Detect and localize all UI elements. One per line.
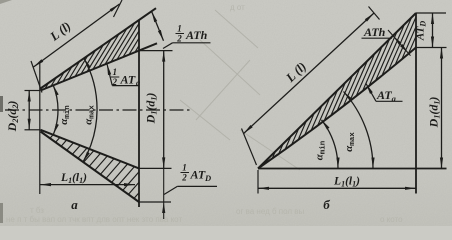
- extension tick right for L(l): [114, 0, 123, 17]
- svg-text:AT: AT: [190, 168, 206, 182]
- svg-text:D2(d2): D2(d2): [5, 101, 20, 133]
- svg-text:а: а: [71, 197, 78, 212]
- label D2(d2) rotated: [5, 101, 20, 133]
- centerline axis of left cone: [5, 109, 191, 111]
- leader arrow of half-ATa label: [107, 64, 112, 85]
- svg-text:о кото: о кото: [380, 215, 403, 224]
- label 1/2 ATh: [176, 24, 208, 44]
- half-ATD lower outside arrow: [163, 202, 165, 219]
- AT-D top extension line, right figure: [416, 12, 446, 14]
- left end face extension line: [39, 63, 41, 194]
- big-end face line, right figure: [415, 13, 417, 194]
- svg-text:не п т бы вап ол тчк впт: не п т бы вап ол тчк впт длв опт нек зто…: [6, 215, 182, 224]
- label L(l) right figure: [283, 59, 309, 85]
- svg-text:D1(d1): D1(d1): [427, 97, 442, 129]
- lower alpha-max boundary line, left figure: [41, 132, 140, 203]
- hatching of lower tolerance zone, left figure: [50, 135, 53, 139]
- hatching of upper tolerance zone, left figure: [45, 83, 49, 89]
- hatching of tolerance zone, right figure: [266, 159, 268, 163]
- label alpha-min right figure: [313, 140, 327, 160]
- label AT-D rotated, right figure: [415, 21, 428, 41]
- L(l) dimension line, left figure: [34, 4, 120, 67]
- upper alpha-max boundary generatrix, right figure: [258, 13, 416, 169]
- svg-text:D1(d1): D1(d1): [144, 93, 159, 125]
- label D1(d1) rotated: [144, 93, 159, 125]
- alpha-max arc, right figure: [344, 92, 374, 169]
- leader line of half-ATh label: [163, 43, 173, 49]
- alpha-max full-angle arc, left figure: [83, 58, 97, 162]
- D1 dimension line, right figure: [441, 48, 443, 169]
- label 1/2 ATa: [111, 67, 141, 88]
- L(l) dimension line, right figure: [244, 13, 375, 134]
- L1(l1) dimension line, left figure: [40, 184, 135, 186]
- label alpha-min left figure: [58, 105, 72, 125]
- apex extension line for L1, right figure: [257, 170, 259, 194]
- ATh perpendicular dimension, right figure: [388, 30, 411, 56]
- half-ATD dimension shaft through: [163, 168, 165, 202]
- svg-text:AT: AT: [120, 73, 136, 87]
- D2 upper extension tick: [25, 90, 40, 92]
- AT-D / D1 middle extension line, right figure: [416, 47, 447, 49]
- svg-text:2: 2: [181, 173, 187, 183]
- label 1/2 ATD: [181, 163, 212, 184]
- svg-text:ог ва нед б пол вы: ог ва нед б пол вы: [236, 207, 305, 216]
- D2 dimension line: [28, 91, 30, 130]
- right end face line of left cone: [138, 20, 140, 207]
- svg-text:L1(l1): L1(l1): [60, 172, 87, 185]
- faint bleed-through ghost marks (scan artifacts): [180, 10, 300, 170]
- svg-text:ATh: ATh: [185, 28, 208, 42]
- lower nominal generatrix, left figure: [41, 130, 140, 169]
- half-ATD lower extension line: [139, 201, 171, 203]
- svg-text:д от: д от: [230, 3, 245, 12]
- svg-text:1: 1: [113, 67, 118, 77]
- half-ATh perpendicular dimension, left figure: [152, 11, 164, 40]
- D1 top extension line: [139, 50, 173, 52]
- D1 dimension line: [163, 51, 165, 169]
- svg-text:б: б: [323, 197, 330, 212]
- upper alpha-max boundary line, left figure: [41, 8, 157, 88]
- D2 lower extension tick: [25, 129, 40, 131]
- svg-text:т бз: т бз: [30, 206, 44, 215]
- svg-text:1: 1: [182, 163, 187, 173]
- svg-text:1: 1: [177, 24, 182, 34]
- label alpha-max left figure: [83, 105, 97, 125]
- extension tick right for L(l) right figure: [369, 7, 380, 20]
- extension tick left for L(l): [31, 61, 42, 93]
- alpha-min full-angle arc, left figure: [53, 85, 58, 134]
- svg-text:2: 2: [112, 77, 118, 87]
- label alpha-max right figure: [343, 132, 357, 152]
- svg-text:ATh: ATh: [363, 25, 386, 39]
- base axis line, right figure: [258, 168, 447, 170]
- D1 bottom extension line: [139, 167, 172, 169]
- label L(l) left figure: [47, 19, 74, 44]
- L1(l1) dimension line, right figure: [258, 187, 416, 189]
- svg-text:D: D: [204, 173, 211, 183]
- svg-text:L1(l1): L1(l1): [333, 176, 360, 189]
- extension tick at apex for L(l) right figure: [242, 129, 257, 166]
- alpha-min arc, right figure: [322, 120, 339, 169]
- upper nominal generatrix (alpha-min boundary), left figure: [41, 43, 158, 90]
- AT-D dimension line, right figure: [432, 13, 434, 48]
- leader of half-ATD label: [164, 186, 177, 194]
- svg-text:2: 2: [176, 34, 182, 44]
- label D1(d1) rotated, right figure: [427, 97, 442, 129]
- nominal generatrix, right figure: [258, 48, 416, 169]
